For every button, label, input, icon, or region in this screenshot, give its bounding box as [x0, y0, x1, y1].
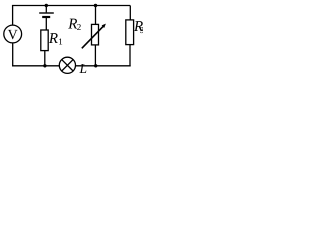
battery wire stem top: [45, 6, 47, 13]
battery wire stem to R1: [45, 18, 47, 30]
svg-text:R: R: [48, 31, 58, 47]
svg-text:2: 2: [77, 22, 82, 32]
junction node R2 bottom: [94, 64, 97, 67]
svg-text:L: L: [79, 61, 88, 76]
voltmeter V: [4, 25, 22, 43]
rheostat R2 arrowhead: [102, 24, 106, 28]
lamp L cross diagonal 2: [62, 60, 73, 71]
wire right lower: [129, 45, 131, 67]
svg-text:1: 1: [58, 37, 63, 47]
resistor R1 box: [41, 30, 48, 51]
resistor R3 box: [126, 20, 134, 45]
wire top: [12, 5, 130, 7]
svg-text:3: 3: [140, 25, 143, 35]
wire R2 stem top: [95, 6, 97, 25]
wire left lower: [12, 43, 14, 67]
battery positive long plate: [39, 12, 54, 14]
svg-text:V: V: [8, 28, 18, 43]
rheostat R2 arrow shaft: [82, 25, 105, 48]
wire bottom left segment: [12, 65, 59, 67]
wire R2 stem bottom: [94, 45, 96, 66]
battery negative short plate: [42, 16, 50, 18]
junction node battery top: [45, 4, 48, 7]
wire left upper: [12, 6, 14, 26]
lamp L cross diagonal 1: [62, 60, 73, 71]
junction node R2 top: [94, 4, 97, 7]
junction node R1 bottom: [43, 64, 46, 67]
wire bottom right segment: [76, 65, 131, 67]
wire right upper: [129, 6, 131, 20]
lamp L circle: [59, 57, 75, 73]
wire R1 bottom stem: [44, 51, 46, 66]
rheostat R2 box: [92, 24, 99, 45]
